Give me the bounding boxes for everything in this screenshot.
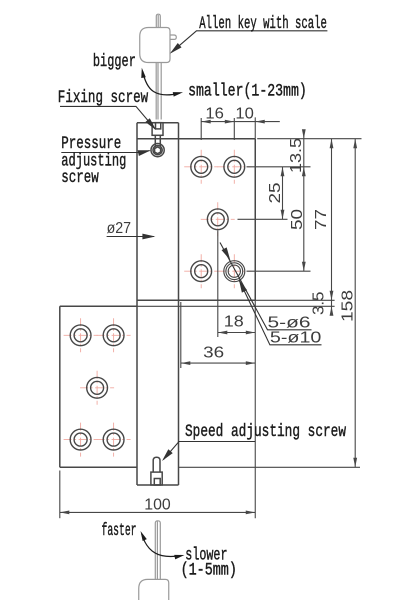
svg-text:Allen key with scale: Allen key with scale	[199, 14, 327, 34]
svg-text:bigger: bigger	[93, 52, 136, 72]
svg-text:ø27: ø27	[107, 220, 132, 237]
svg-text:16: 16	[205, 106, 224, 123]
svg-text:18: 18	[224, 314, 244, 331]
svg-text:3.5: 3.5	[311, 291, 328, 315]
svg-text:screw: screw	[61, 168, 99, 188]
svg-text:Speed adjusting screw: Speed adjusting screw	[185, 422, 346, 442]
svg-text:5-ø10: 5-ø10	[270, 330, 322, 347]
svg-text:100: 100	[144, 497, 171, 514]
svg-text:smaller(1-23mm): smaller(1-23mm)	[188, 82, 307, 102]
svg-text:Fixing screw: Fixing screw	[58, 88, 149, 108]
svg-text:13.5: 13.5	[288, 138, 305, 173]
svg-text:(1-5mm): (1-5mm)	[181, 561, 237, 581]
svg-text:36: 36	[203, 345, 224, 362]
svg-text:10: 10	[235, 106, 254, 123]
svg-text:50: 50	[289, 209, 306, 230]
svg-text:77: 77	[313, 209, 330, 230]
svg-text:faster: faster	[102, 521, 137, 541]
svg-text:158: 158	[340, 290, 357, 322]
svg-text:25: 25	[267, 182, 284, 203]
